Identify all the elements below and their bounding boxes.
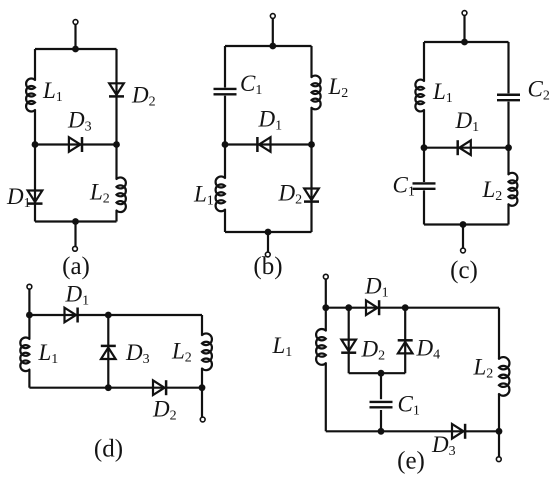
wire (a) bottom <box>35 220 117 222</box>
node (c) top junction <box>461 39 468 46</box>
diode D2 (a) <box>109 83 124 96</box>
wire (d) right rail upper <box>201 315 203 335</box>
diode D4 (e) <box>398 340 413 353</box>
inductor L2 (d) <box>202 333 212 370</box>
terminal (b) bottom <box>265 252 270 257</box>
inductor L2 (a) <box>117 177 126 212</box>
wire (c) right rail mid <box>507 102 509 175</box>
wire (b) left rail upper <box>224 46 226 88</box>
node (e) top-left junction <box>322 304 329 311</box>
wire (e) D4 branch <box>404 308 406 374</box>
node (a) right mid junction <box>113 141 120 148</box>
wire (b) left rail mid <box>224 96 226 178</box>
terminal (c) top <box>462 11 467 16</box>
terminal (a) top <box>73 20 78 25</box>
node (b) right mid junction <box>308 141 315 148</box>
terminal (e) top <box>323 274 328 279</box>
wire (e) C1 lower stub <box>380 410 382 431</box>
wire (b) top stub <box>272 18 274 46</box>
wire (c) right rail upper <box>507 42 509 93</box>
terminal (d) bottom-right <box>200 417 205 422</box>
terminal (c) bottom <box>461 248 466 253</box>
node (b) bottom junction <box>265 229 272 236</box>
diode D1 (e) <box>366 300 379 315</box>
inductor L1 (e) <box>316 329 326 365</box>
wire (a) left rail mid <box>34 110 36 222</box>
diode D1 (d) <box>65 308 78 323</box>
node (b) left mid junction <box>222 141 229 148</box>
node (a) top junction <box>72 46 79 53</box>
wire (c) top <box>424 41 509 43</box>
node (b) top junction <box>269 43 276 50</box>
wire (c) left rail lower <box>423 190 425 224</box>
node (a) bottom junction <box>72 218 79 225</box>
node (c) bottom junction <box>460 221 467 228</box>
node (a) left mid junction <box>32 141 39 148</box>
wire (b) bottom <box>225 231 312 233</box>
node (d) top-left junction <box>26 312 33 319</box>
wire (d) right rail lower <box>201 369 203 388</box>
terminal (b) top <box>270 14 275 19</box>
wire (c) left rail mid <box>423 110 425 182</box>
node (e) bottom-right junction <box>496 428 503 435</box>
diode D1 (a) <box>28 191 43 204</box>
diode D1 (c) <box>458 140 471 155</box>
wire (e) top <box>326 307 499 309</box>
svg-text:(e): (e) <box>397 448 425 475</box>
wire (a) right rail upper <box>115 49 117 179</box>
wire (d) bottom <box>29 387 202 389</box>
node (e) inner bottom junction <box>378 370 385 377</box>
wire (e) bottom stub <box>498 431 500 456</box>
diode D3 (d) <box>101 346 116 359</box>
wire (e) left rail lower <box>325 363 327 431</box>
wire (c) top stub <box>463 15 465 42</box>
wire (b) middle <box>225 143 312 145</box>
wire (e) top stub <box>325 279 327 308</box>
inductor L1 (c) <box>415 80 424 112</box>
wire (a) middle <box>35 143 117 145</box>
wire (e) D2 branch <box>348 308 350 374</box>
node (d) bottom-right junction <box>199 384 206 391</box>
node (e) bottom junction <box>378 428 385 435</box>
wire (c) left rail upper <box>423 42 425 81</box>
diode D3 (e) <box>452 424 465 439</box>
wire (b) bottom stub <box>267 232 269 252</box>
wire (b) left rail lower <box>224 210 226 232</box>
node (d) bottom-middle junction <box>105 384 112 391</box>
node (e) D4 top junction <box>402 304 409 311</box>
inductor L1 (a) <box>26 79 35 112</box>
svg-text:(a): (a) <box>62 253 90 280</box>
diode D2 (e) <box>341 340 356 353</box>
node (c) right mid junction <box>505 144 512 151</box>
wire (e) bottom <box>326 430 499 432</box>
node (d) top-middle junction <box>105 312 112 319</box>
wire (a) top <box>35 48 117 50</box>
wire (a) right rail lower <box>115 211 117 222</box>
wire (b) top <box>225 45 312 47</box>
capacitor C1 (c) <box>413 183 436 188</box>
inductor L2 (e) <box>499 357 509 396</box>
terminal (d) top-left <box>27 284 32 289</box>
node (e) D2 top junction <box>345 304 352 311</box>
diode D3 (a) <box>69 137 82 152</box>
diode D2 (d) <box>153 380 166 395</box>
svg-text:(d): (d) <box>94 436 123 463</box>
inductor L1 (d) <box>20 337 29 371</box>
wire (b) right rail mid <box>310 108 312 232</box>
capacitor C2 (c) <box>497 95 520 100</box>
wire (e) left rail upper <box>325 308 327 331</box>
capacitor C1 (b) <box>214 89 237 94</box>
inductor L2 (c) <box>509 173 518 206</box>
svg-text:(b): (b) <box>253 253 282 280</box>
capacitor C1 (e) <box>370 402 393 407</box>
wire (c) right rail lower <box>507 204 509 224</box>
wire (e) inner bottom <box>349 372 406 374</box>
wire (e) C1 upper stub <box>380 373 382 399</box>
wire (d) middle branch <box>107 315 109 388</box>
terminal (a) bottom <box>73 246 78 251</box>
wire (d) top stub <box>28 289 30 315</box>
wire (d) left rail upper <box>28 315 30 339</box>
wire (b) right rail upper <box>310 46 312 77</box>
wire (c) bottom <box>424 223 509 225</box>
wire (a) bottom stub <box>74 222 76 247</box>
wire (a) top stub <box>74 24 76 49</box>
inductor L1 (b) <box>216 176 225 211</box>
wire (c) bottom stub <box>462 225 464 249</box>
wire (d) left rail lower <box>28 370 30 388</box>
wire (d) top <box>29 314 202 316</box>
svg-text:(c): (c) <box>450 257 478 284</box>
terminal (e) bottom <box>496 457 501 462</box>
wire (e) right rail upper <box>498 308 500 359</box>
node (c) left mid junction <box>421 144 428 151</box>
diode D2 (b) <box>304 189 319 202</box>
wire (e) right rail lower <box>498 394 500 431</box>
inductor L2 (b) <box>312 76 321 110</box>
wire (a) left rail upper <box>34 49 36 80</box>
wire (d) bottom stub <box>201 388 203 417</box>
wire (c) middle <box>424 147 509 149</box>
diode D1 (b) <box>257 137 270 152</box>
